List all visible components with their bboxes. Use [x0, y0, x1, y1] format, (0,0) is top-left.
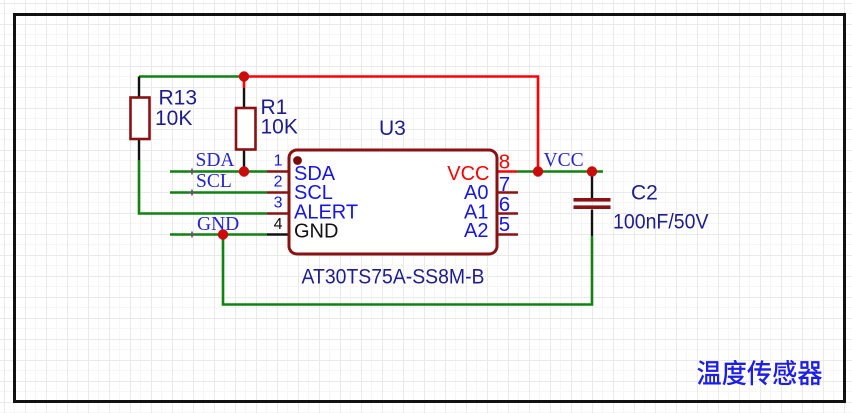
svg-text:U3: U3	[379, 117, 406, 140]
svg-text:10K: 10K	[261, 116, 298, 139]
svg-text:C2: C2	[631, 182, 658, 205]
svg-text:SCL: SCL	[196, 171, 232, 192]
svg-text:3: 3	[274, 194, 283, 211]
svg-text:100nF/50V: 100nF/50V	[613, 210, 709, 233]
svg-text:A2: A2	[464, 220, 488, 242]
svg-text:GND: GND	[294, 221, 338, 243]
svg-text:10K: 10K	[155, 107, 192, 130]
svg-text:2: 2	[274, 173, 283, 190]
svg-text:SDA: SDA	[196, 150, 235, 171]
svg-text:8: 8	[499, 151, 510, 174]
svg-text:1: 1	[274, 152, 283, 169]
svg-text:GND: GND	[197, 214, 239, 235]
svg-text:VCC: VCC	[544, 150, 584, 171]
svg-text:5: 5	[499, 213, 510, 236]
svg-text:4: 4	[274, 216, 283, 233]
svg-text:AT30TS75A-SS8M-B: AT30TS75A-SS8M-B	[302, 266, 485, 289]
